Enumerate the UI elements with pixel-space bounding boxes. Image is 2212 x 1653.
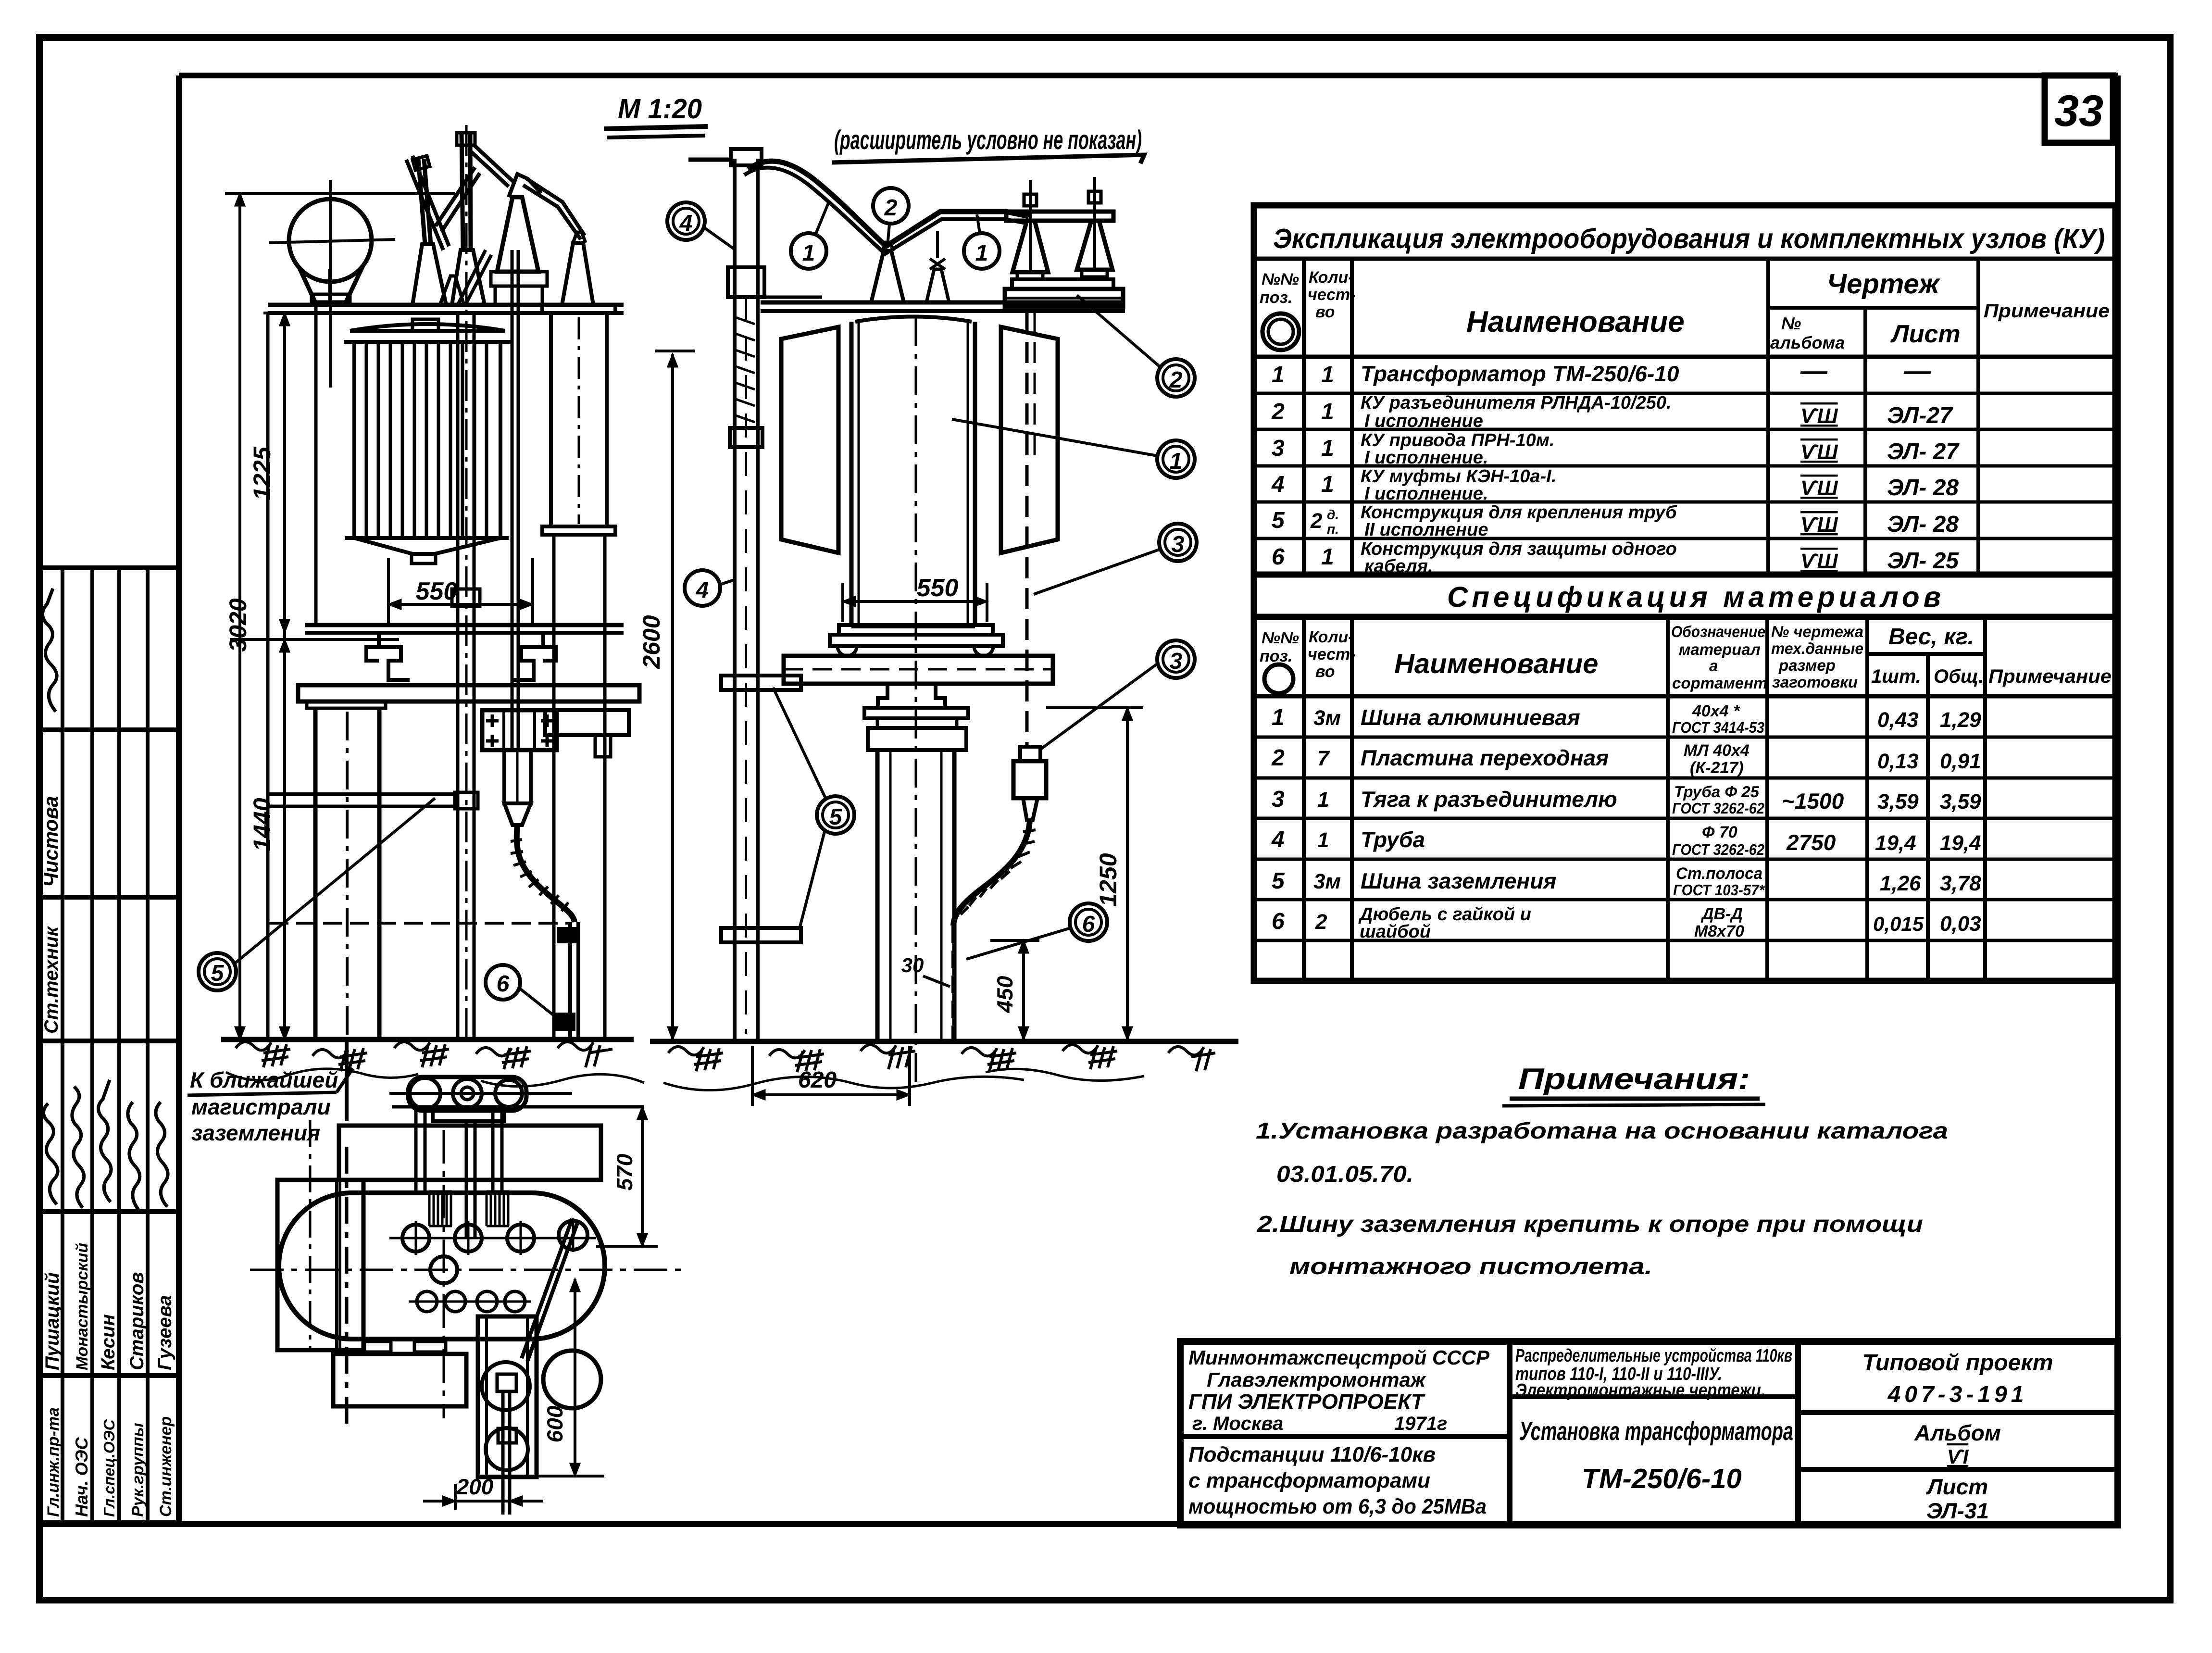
bracket right under platform2 bbox=[512, 633, 556, 680]
pole inner lines bbox=[889, 750, 892, 1039]
top dimension extension line bbox=[225, 192, 455, 195]
pipe wrap ticks bbox=[736, 317, 755, 422]
svg-text:ГПИ ЭЛЕКТРОПРОЕКТ: ГПИ ЭЛЕКТРОПРОЕКТ bbox=[1188, 1390, 1425, 1414]
dim 620 extensions bbox=[751, 1046, 754, 1106]
svg-text:ЭЛ-27: ЭЛ-27 bbox=[1887, 403, 1953, 428]
main centerline bbox=[465, 125, 468, 1039]
radiator body bbox=[354, 342, 500, 538]
dim 450 line bbox=[1022, 940, 1025, 1039]
callout 4 mid leader bbox=[720, 579, 736, 585]
svg-text:М 1:20: М 1:20 bbox=[618, 93, 702, 125]
step block 2 bbox=[1082, 270, 1107, 277]
svg-text:2: 2 bbox=[1169, 367, 1183, 393]
svg-text:19,4: 19,4 bbox=[1940, 831, 1981, 855]
dim line 3020 vertical bbox=[238, 193, 241, 1039]
svg-text:2.Шину заземления крепить к оп: 2.Шину заземления крепить к опоре при по… bbox=[1257, 1212, 1923, 1237]
svg-text:3м: 3м bbox=[1313, 870, 1341, 893]
right cone 2 cap bbox=[1088, 191, 1101, 203]
svg-text:Примечание: Примечание bbox=[1988, 666, 2112, 687]
svg-text:во: во bbox=[1315, 663, 1335, 681]
base channel bbox=[868, 728, 966, 750]
svg-text:ЭЛ- 28: ЭЛ- 28 bbox=[1887, 475, 1959, 501]
feet arcs bbox=[837, 646, 993, 656]
svg-text:0,91: 0,91 bbox=[1940, 750, 1981, 773]
header bottom bbox=[1254, 694, 2115, 699]
balloon goblet right bbox=[346, 266, 363, 301]
roller bracket bbox=[433, 1111, 504, 1121]
dim 600 arrows bbox=[570, 1279, 580, 1476]
svg-text:Лист: Лист bbox=[1926, 1474, 1988, 1499]
right cone 1 pin bbox=[1029, 180, 1032, 272]
chain extension line bbox=[230, 638, 399, 641]
svg-text:03.01.05.70.: 03.01.05.70. bbox=[1276, 1162, 1413, 1187]
long squiggles under ground bbox=[226, 1069, 418, 1080]
cable from pipe top bbox=[748, 161, 1029, 246]
svg-text:7: 7 bbox=[1317, 747, 1330, 770]
svg-text:407-3-191: 407-3-191 bbox=[1887, 1382, 2028, 1407]
svg-text:Коли-: Коли- bbox=[1309, 628, 1354, 646]
small pin insulator mid bbox=[440, 276, 464, 305]
pedestal bbox=[878, 684, 945, 708]
svg-text:Примечания:: Примечания: bbox=[1518, 1063, 1750, 1096]
lv bushing 3 bbox=[477, 1291, 497, 1312]
callout 1 left circle bbox=[791, 233, 826, 269]
insulator pos2 cone bbox=[871, 251, 904, 302]
svg-text:ТМ-250/6-10: ТМ-250/6-10 bbox=[1582, 1463, 1742, 1494]
dim 200 arrows bbox=[443, 1496, 522, 1506]
diagonal tie bbox=[522, 1219, 578, 1361]
callout 4 top leader bbox=[704, 227, 736, 250]
crossarm slab mid bbox=[784, 656, 1053, 684]
svg-text:монтажного пистолета.: монтажного пистолета. bbox=[1289, 1254, 1652, 1279]
top wide rect bbox=[339, 1126, 601, 1180]
svg-text:—: — bbox=[1800, 355, 1828, 386]
step block 1 bbox=[1017, 272, 1043, 279]
roller circle 1 bbox=[410, 1078, 440, 1109]
svg-text:Ст.инженер: Ст.инженер bbox=[157, 1416, 175, 1517]
bench plate upper bbox=[1012, 279, 1113, 289]
svg-text:40х4 *: 40х4 * bbox=[1692, 702, 1740, 720]
signature scribble 1 bbox=[43, 1103, 58, 1204]
balloon support column bbox=[328, 269, 332, 305]
svg-text:ЭЛ- 28: ЭЛ- 28 bbox=[1887, 512, 1959, 537]
radiator stub bbox=[412, 554, 436, 564]
ground line left bbox=[221, 1037, 634, 1042]
svg-text:п.: п. bbox=[1327, 522, 1339, 537]
svg-text:4: 4 bbox=[679, 211, 693, 236]
small cone cap bbox=[573, 232, 586, 243]
svg-text:I исполнение: I исполнение bbox=[1364, 411, 1483, 431]
pipe inner line bbox=[745, 298, 747, 1034]
callout 4 top circle bbox=[667, 202, 705, 240]
pole cap plate bbox=[307, 701, 386, 708]
clamp filled lower bbox=[555, 1014, 575, 1030]
disconnector cone right bbox=[497, 197, 538, 272]
dim 1250 arrows bbox=[1123, 708, 1132, 1039]
dim 570 line bbox=[641, 1107, 644, 1246]
callout 5 leader bbox=[235, 798, 435, 964]
roller circle 3 bbox=[495, 1080, 522, 1107]
svg-text:1,26: 1,26 bbox=[1880, 872, 1921, 895]
svg-text:0,43: 0,43 bbox=[1877, 708, 1919, 732]
svg-text:Чертеж: Чертеж bbox=[1827, 268, 1941, 300]
svg-text:Гузеева: Гузеева bbox=[154, 1295, 175, 1370]
inner drawing frame left bbox=[176, 75, 182, 1524]
dim 570 arrows bbox=[637, 1107, 647, 1246]
svg-text:(К-217): (К-217) bbox=[1690, 759, 1744, 777]
small insulator stem bbox=[936, 231, 939, 258]
svg-text:3: 3 bbox=[1272, 787, 1285, 812]
Чертеж sub split bbox=[1768, 306, 1978, 310]
svg-text:чест-: чест- bbox=[1308, 645, 1356, 664]
cylinder legs bbox=[554, 535, 605, 1039]
svg-text:Общ.: Общ. bbox=[1934, 666, 1984, 687]
svg-text:Лист: Лист bbox=[1890, 320, 1961, 348]
crossbar over insulator pair bbox=[1006, 212, 1113, 221]
svg-text:М8х70: М8х70 bbox=[1694, 922, 1744, 940]
callout 1 left leader bbox=[815, 202, 829, 235]
Вес split bbox=[1867, 652, 1985, 656]
left support drop line bbox=[266, 313, 270, 1039]
drive box inner bbox=[504, 710, 535, 750]
callout 5 mid circle bbox=[817, 796, 854, 834]
svg-text:620: 620 bbox=[798, 1067, 837, 1093]
dim 30 tick bbox=[923, 976, 950, 987]
svg-text:0,13: 0,13 bbox=[1877, 750, 1919, 773]
channel inner walls bbox=[487, 1316, 527, 1477]
insulator pos2 cap bbox=[883, 242, 893, 251]
insulator A cap bbox=[412, 156, 430, 170]
header bottom bbox=[1254, 355, 2115, 359]
svg-text:2600: 2600 bbox=[638, 615, 665, 669]
svg-text:2: 2 bbox=[884, 195, 898, 221]
ground note pointer bbox=[337, 1068, 353, 1092]
svg-text:КУ разъединителя РЛНДА-10/250.: КУ разъединителя РЛНДА-10/250. bbox=[1361, 393, 1672, 413]
radiator ribs bbox=[366, 342, 487, 538]
sheet number box bbox=[2045, 75, 2113, 143]
scale underline bbox=[604, 126, 708, 129]
pole left edge mid bbox=[875, 750, 880, 1039]
platform bottom line bbox=[761, 309, 1125, 313]
svg-text:заготовки: заготовки bbox=[1772, 673, 1858, 691]
callout 2 top circle bbox=[873, 188, 909, 224]
left rect centerline bbox=[309, 1120, 312, 1349]
mast tall bbox=[462, 133, 463, 250]
svg-text:Наименование: Наименование bbox=[1394, 648, 1598, 679]
callout 3 lower leader bbox=[1041, 664, 1158, 749]
conduit pair 3 bbox=[493, 1111, 502, 1192]
svg-text:ГОСТ 3414-53: ГОСТ 3414-53 bbox=[1672, 719, 1764, 736]
platform 2 lower line bbox=[305, 631, 624, 635]
radiator lifting lug bbox=[412, 319, 438, 331]
svg-text:3м: 3м bbox=[1313, 706, 1341, 730]
svg-text:ЭЛ- 25: ЭЛ- 25 bbox=[1887, 548, 1959, 574]
wooden pole left edge bbox=[313, 708, 318, 1039]
row lines bbox=[1254, 736, 2115, 739]
svg-text:Вес, кг.: Вес, кг. bbox=[1888, 624, 1974, 650]
disconnector arm to right bbox=[523, 179, 585, 239]
underline for heading bbox=[1510, 1097, 1760, 1101]
svg-text:с трансформаторами: с трансформаторами bbox=[1188, 1469, 1430, 1492]
svg-text:Кесин: Кесин bbox=[98, 1314, 119, 1370]
dim 2600 extension bbox=[655, 350, 695, 352]
verticals bbox=[1507, 1341, 1512, 1525]
dim 2600 arrows bbox=[668, 354, 677, 1039]
svg-text:5: 5 bbox=[1272, 868, 1285, 894]
svg-text:1: 1 bbox=[1170, 449, 1183, 474]
svg-text:3,59: 3,59 bbox=[1877, 790, 1919, 814]
bushing 3 bbox=[507, 1225, 534, 1252]
svg-text:I исполнение.: I исполнение. bbox=[1364, 448, 1488, 468]
mufta body bbox=[1013, 761, 1046, 798]
callout 6 mid circle bbox=[1070, 903, 1107, 941]
centerline row2 bbox=[409, 1301, 531, 1303]
callout 5 leaders bbox=[773, 688, 826, 930]
svg-text:33: 33 bbox=[2054, 87, 2103, 136]
drive box bolts bbox=[486, 714, 553, 747]
callout 2 right leader bbox=[1077, 295, 1161, 367]
tank bottom line bbox=[851, 625, 975, 628]
svg-text:1971г: 1971г bbox=[1394, 1413, 1447, 1434]
dim 200 line bbox=[423, 1500, 543, 1503]
svg-text:2750: 2750 bbox=[1786, 830, 1836, 855]
dim line 1225/1440 vertical bbox=[283, 313, 286, 1039]
svg-text:6: 6 bbox=[1082, 912, 1095, 937]
svg-text:3: 3 bbox=[1172, 532, 1185, 557]
svg-text:2: 2 bbox=[1315, 910, 1327, 934]
svg-text:3020: 3020 bbox=[225, 598, 251, 651]
conduit pair 2 bbox=[466, 1121, 475, 1238]
row lines bbox=[1254, 392, 2115, 395]
vertical centerline bbox=[443, 1130, 445, 1418]
svg-text:30: 30 bbox=[901, 954, 924, 977]
dim 550 mid line bbox=[843, 600, 987, 603]
svg-text:чест-: чест- bbox=[1308, 286, 1356, 304]
pole circle in channel 1 bbox=[482, 1362, 530, 1410]
svg-text:поз.: поз. bbox=[1260, 288, 1292, 307]
centerline row1 bbox=[389, 1237, 596, 1240]
oval bottom tab 1 bbox=[364, 1341, 391, 1352]
svg-text:тех.данные: тех.данные bbox=[1771, 639, 1863, 657]
bottom rect bbox=[333, 1354, 466, 1406]
svg-text:1: 1 bbox=[1321, 436, 1334, 461]
cable second line bbox=[744, 168, 1026, 254]
svg-text:1225: 1225 bbox=[249, 446, 275, 500]
earthing bracket horizontal bbox=[268, 792, 457, 796]
dim 600 line bbox=[574, 1279, 576, 1476]
cable conduit down bbox=[570, 922, 578, 1039]
grounding bus vertical lower bbox=[345, 1147, 349, 1426]
svg-text:Альбом: Альбом bbox=[1914, 1420, 2001, 1445]
dim 600 extension bbox=[478, 1475, 604, 1478]
svg-text:д.: д. bbox=[1327, 507, 1339, 522]
bushing stems vertical bbox=[416, 1218, 573, 1255]
brace 2 bbox=[436, 167, 480, 232]
mufta nozzle bbox=[1023, 798, 1037, 820]
svg-text:г. Москва: г. Москва bbox=[1192, 1413, 1283, 1434]
callout 1 low leader bbox=[952, 419, 1157, 456]
svg-text:Коли-: Коли- bbox=[1309, 268, 1354, 287]
svg-text:ѴШ: ѴШ bbox=[1800, 513, 1838, 537]
svg-text:2: 2 bbox=[1271, 399, 1285, 425]
callout 2 right circle bbox=[1157, 359, 1195, 397]
pipe stand right wall bbox=[756, 159, 760, 1039]
radiator top rim bbox=[344, 324, 511, 342]
cable dashed to ground bbox=[951, 926, 955, 1039]
svg-text:5: 5 bbox=[1272, 508, 1285, 533]
cable from mufta bbox=[953, 820, 1030, 926]
oval bottom tab 2 bbox=[414, 1341, 446, 1352]
svg-text:Труба: Труба bbox=[1361, 827, 1425, 852]
svg-text:3,59: 3,59 bbox=[1940, 790, 1981, 814]
svg-text:200: 200 bbox=[456, 1474, 494, 1499]
svg-text:6: 6 bbox=[497, 971, 510, 997]
spec title band bbox=[1254, 575, 2115, 617]
callout 6 mid leader bbox=[966, 928, 1071, 959]
inner frame / bottom line full width bbox=[39, 1521, 2118, 1527]
dim 550 arrows bbox=[388, 600, 533, 609]
svg-text:1.Установка разработана на осн: 1.Установка разработана на основании кат… bbox=[1256, 1118, 1948, 1144]
insulator A cone bbox=[412, 244, 446, 305]
right cylinder bottom flange bbox=[542, 526, 615, 535]
svg-text:1: 1 bbox=[1321, 472, 1334, 497]
svg-text:ЭЛ- 27: ЭЛ- 27 bbox=[1887, 439, 1960, 464]
svg-text:6: 6 bbox=[1272, 544, 1285, 570]
middle cell divider bbox=[1510, 1394, 1798, 1399]
svg-text:5: 5 bbox=[829, 804, 843, 830]
svg-text:Пластина переходная: Пластина переходная bbox=[1361, 745, 1609, 770]
tank right edge bbox=[973, 322, 977, 626]
inner drawing frame right bbox=[2115, 75, 2121, 1524]
svg-text:1: 1 bbox=[1272, 362, 1285, 388]
svg-text:1: 1 bbox=[975, 240, 988, 266]
right cell dividers bbox=[1798, 1410, 2118, 1415]
note underline bbox=[832, 155, 1144, 163]
callout 2 top leader bbox=[887, 224, 889, 246]
svg-text:0,015: 0,015 bbox=[1873, 913, 1924, 935]
centerline main axis bbox=[250, 1269, 687, 1271]
insulator B cone bbox=[452, 250, 485, 305]
small insulator right of pos2 bbox=[926, 269, 949, 302]
svg-text:2: 2 bbox=[1310, 509, 1323, 533]
svg-text:МЛ 40х4: МЛ 40х4 bbox=[1684, 741, 1750, 760]
svg-text:Главэлектромонтаж: Главэлектромонтаж bbox=[1207, 1368, 1426, 1391]
svg-text:размер: размер bbox=[1778, 656, 1836, 674]
svg-text:550: 550 bbox=[917, 574, 959, 602]
svg-text:поз.: поз. bbox=[1260, 647, 1292, 665]
plate bracket bbox=[595, 735, 611, 757]
grounding bus vertical bbox=[345, 1039, 349, 1121]
small right cone on cylinder bbox=[562, 243, 593, 305]
ground rod below bbox=[503, 1391, 510, 1515]
radiator bottom taper bbox=[345, 538, 509, 554]
pedestal flange bbox=[864, 708, 968, 718]
lv bushing 1 bbox=[417, 1291, 437, 1312]
rod clamp mid bbox=[452, 589, 480, 606]
platform top line bbox=[761, 301, 1125, 305]
svg-text:Шина заземления: Шина заземления bbox=[1361, 868, 1556, 893]
dim 1250 extension bbox=[1046, 706, 1143, 709]
svg-text:1: 1 bbox=[802, 240, 815, 266]
scribble top cell bbox=[42, 589, 57, 712]
clamp rect 1 bbox=[497, 1374, 516, 1391]
cable hatch ticks bbox=[511, 839, 568, 911]
columns bbox=[1302, 617, 1306, 981]
tank oval bbox=[279, 1193, 605, 1339]
dim 450 extension bbox=[990, 939, 1039, 942]
svg-text:№№: №№ bbox=[1262, 629, 1299, 647]
balloon circle bbox=[289, 199, 372, 282]
pole circle in channel 2 bbox=[486, 1428, 528, 1470]
mast cap bbox=[457, 133, 475, 145]
big circle right bbox=[543, 1351, 601, 1408]
conduit dashed bbox=[1025, 311, 1029, 747]
svg-text:Примечание: Примечание bbox=[1984, 301, 2110, 322]
svg-text:3: 3 bbox=[1170, 649, 1183, 674]
right cylinder body bbox=[551, 313, 607, 526]
clamp rect 2 bbox=[498, 1428, 516, 1443]
band dividers upper group bbox=[40, 727, 179, 732]
bushing 2 bbox=[455, 1225, 482, 1252]
right cone 1 cap bbox=[1024, 194, 1037, 206]
svg-text:3,78: 3,78 bbox=[1940, 872, 1981, 895]
svg-text:II исполнение: II исполнение bbox=[1364, 520, 1488, 540]
center circle bbox=[430, 1256, 457, 1283]
balloon goblet left bbox=[299, 267, 315, 301]
svg-text:2: 2 bbox=[1271, 745, 1285, 771]
svg-text:заземления: заземления bbox=[191, 1120, 320, 1145]
svg-text:Типовой проект: Типовой проект bbox=[1862, 1350, 2053, 1376]
brace 4 bbox=[458, 250, 491, 305]
wooden pole right edge bbox=[377, 708, 382, 1039]
brace 1 bbox=[406, 156, 449, 250]
svg-text:I исполнение.: I исполнение. bbox=[1364, 484, 1488, 504]
platform top line bbox=[268, 303, 624, 307]
svg-text:1: 1 bbox=[1321, 544, 1334, 570]
extension tick at 634 bbox=[263, 312, 306, 314]
column lines bbox=[1302, 259, 1306, 575]
bracket pipe lower bbox=[721, 928, 801, 942]
svg-text:№: № bbox=[1781, 313, 1801, 333]
svg-text:1шт.: 1шт. bbox=[1871, 666, 1921, 687]
roller housing bbox=[408, 1077, 526, 1111]
svg-text:6: 6 bbox=[1272, 909, 1285, 934]
callout 3 lower circle bbox=[1157, 640, 1195, 678]
right cone 2 pin bbox=[1093, 177, 1096, 270]
brace 3 bbox=[469, 144, 513, 187]
svg-text:материал: материал bbox=[1679, 640, 1761, 658]
left cell divider bbox=[1180, 1434, 1510, 1439]
svg-text:Минмонтажспецстрой СССР: Минмонтажспецстрой СССР bbox=[1188, 1346, 1490, 1369]
svg-text:ѴІ: ѴІ bbox=[1947, 1445, 1969, 1468]
dim 200 extensions bbox=[454, 1484, 457, 1510]
svg-text:Распределительные устройства 1: Распределительные устройства 110кв bbox=[1515, 1346, 1792, 1366]
svg-text:Шина алюминиевая: Шина алюминиевая bbox=[1361, 705, 1580, 730]
bushing 1 bbox=[402, 1225, 429, 1252]
conduit solid hint bbox=[1034, 311, 1036, 462]
tank top dome bbox=[855, 317, 972, 322]
right cone 1 bbox=[1012, 221, 1048, 272]
platform bottom line bbox=[268, 311, 624, 315]
structure left edge bbox=[314, 306, 318, 625]
svg-text:Электромонтажные чертежи.: Электромонтажные чертежи. bbox=[1515, 1380, 1765, 1401]
drive box bbox=[482, 710, 557, 750]
svg-text:1: 1 bbox=[1321, 362, 1334, 388]
pipe stand left wall bbox=[733, 159, 737, 1039]
roller circle 2 bbox=[453, 1079, 482, 1108]
svg-text:4: 4 bbox=[1271, 472, 1285, 497]
callout 5 circle bbox=[199, 953, 236, 990]
